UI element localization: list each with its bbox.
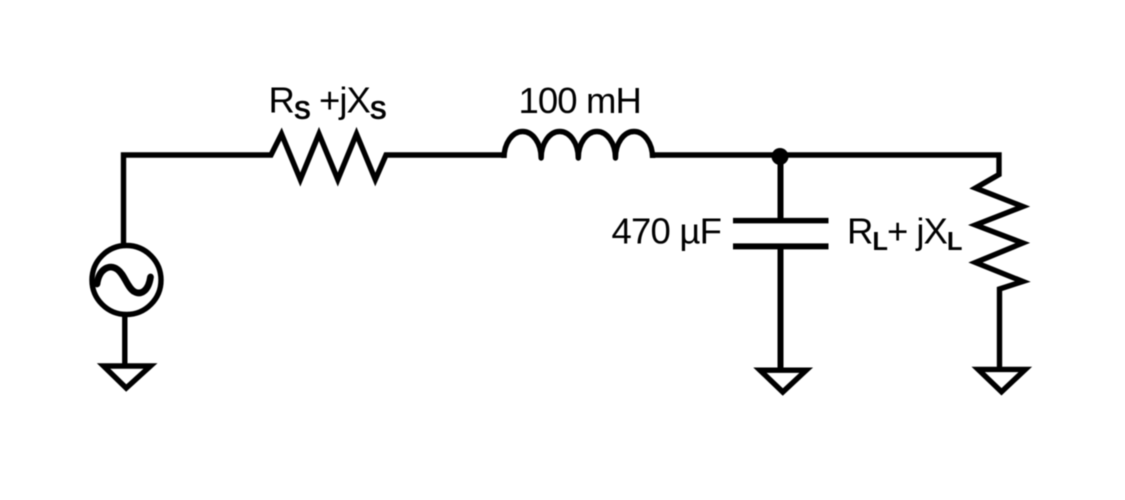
svg-text:100 mH: 100 mH bbox=[519, 80, 641, 121]
svg-text:RL+ jXL: RL+ jXL bbox=[847, 211, 962, 257]
svg-text:470 µF: 470 µF bbox=[612, 211, 722, 252]
svg-text:RS +jXS: RS +jXS bbox=[269, 80, 387, 126]
